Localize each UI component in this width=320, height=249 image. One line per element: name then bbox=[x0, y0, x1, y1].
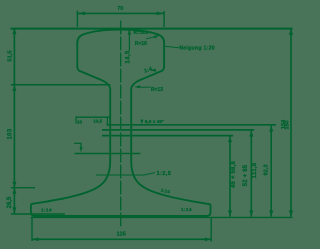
fishing height extension line 1 bbox=[107, 124, 277, 126]
right dim 2 top arrow bbox=[249, 131, 253, 137]
svg-text:6,5 x 45°: 6,5 x 45° bbox=[145, 119, 164, 125]
foot width arrow right bbox=[205, 237, 211, 241]
fishing height extension line 3 bbox=[102, 135, 233, 137]
svg-text:13,5: 13,5 bbox=[93, 119, 102, 124]
head width dimension: left extension bbox=[76, 11, 78, 27]
web reference line bbox=[75, 153, 141, 155]
total height top arrow bbox=[289, 29, 293, 35]
left ext arrow at head underside bbox=[10, 83, 15, 86]
left dim arrow top bbox=[12, 28, 16, 34]
web fillet leader bbox=[137, 86, 151, 88]
svg-text:52 + 65: 52 + 65 bbox=[243, 164, 249, 186]
total height dimension line bbox=[290, 29, 292, 217]
svg-text:1:14: 1:14 bbox=[181, 207, 192, 213]
svg-text:1:2,5: 1:2,5 bbox=[157, 171, 172, 177]
svg-text:R=300: R=300 bbox=[134, 30, 149, 35]
svg-text:26,5: 26,5 bbox=[7, 196, 13, 208]
web fillet leader arrow bbox=[134, 85, 140, 88]
right dim line 1 (innermost) bbox=[229, 136, 231, 216]
svg-text:125: 125 bbox=[117, 231, 126, 237]
svg-text:16: 16 bbox=[77, 120, 83, 125]
fishing height extension line 2 bbox=[102, 129, 254, 131]
foot width extension left bbox=[31, 218, 33, 241]
head mini dimension line bbox=[128, 29, 130, 51]
svg-text:92,3: 92,3 bbox=[263, 165, 269, 176]
head side leader bbox=[165, 46, 179, 48]
svg-text:R=10: R=10 bbox=[135, 41, 147, 47]
svg-text:Neigung 1:20: Neigung 1:20 bbox=[179, 45, 215, 51]
svg-text:103: 103 bbox=[7, 128, 13, 139]
lower web leader bbox=[142, 173, 155, 176]
svg-text:14,5: 14,5 bbox=[125, 50, 132, 64]
extension 1 nub arrow bbox=[140, 120, 143, 125]
fishing slope arrow bbox=[150, 69, 157, 72]
total height bottom arrow bbox=[289, 210, 293, 216]
right dim 1 top arrow bbox=[228, 137, 232, 143]
gauge corner leader arrow bbox=[154, 35, 160, 39]
lower web reference line bbox=[96, 174, 142, 176]
head width arrow right bbox=[157, 12, 164, 16]
right dim line 2 bbox=[250, 131, 252, 217]
svg-text:51,5: 51,5 bbox=[7, 50, 13, 62]
right dim 1 bottom arrow bbox=[228, 211, 232, 217]
left extension at head underside bbox=[11, 84, 110, 86]
web small dim tick left bbox=[75, 116, 77, 123]
top-of-rail extension line bbox=[11, 28, 293, 30]
left extension at foot tip bbox=[11, 213, 65, 215]
left extension at foot top bbox=[11, 187, 35, 189]
head width arrow left bbox=[78, 12, 85, 16]
left dim arrow bottom bbox=[12, 207, 16, 213]
svg-text:150: 150 bbox=[285, 120, 291, 129]
web small dimension line bbox=[76, 116, 111, 118]
head width dimension: right extension bbox=[163, 11, 165, 27]
foot width dimension line bbox=[32, 238, 211, 240]
svg-text:45 + 58,8: 45 + 58,8 bbox=[231, 161, 237, 188]
gauge corner leader bbox=[146, 37, 156, 39]
web reference leader bbox=[74, 143, 81, 149]
foot bottom extension line bbox=[31, 216, 293, 218]
left chained dimension line bbox=[13, 28, 15, 213]
left dim junction arrows mid2 bbox=[12, 182, 16, 194]
right dim 3 top arrow bbox=[269, 126, 273, 132]
svg-text:70: 70 bbox=[117, 6, 123, 12]
svg-text:111,8: 111,8 bbox=[252, 162, 258, 178]
centerline (vertical axis) bbox=[120, 21, 122, 227]
head width dimension line bbox=[77, 12, 164, 14]
right dim 2 bottom arrow bbox=[249, 211, 253, 217]
web reference leader arrow bbox=[80, 147, 83, 152]
web small dim tick right bbox=[106, 117, 108, 124]
svg-text:R=13: R=13 bbox=[151, 87, 163, 93]
rail profile outline bbox=[31, 30, 211, 216]
right dim line 3 bbox=[270, 126, 272, 217]
right dim 3 bottom arrow bbox=[269, 211, 273, 217]
head mini dim arrow bbox=[128, 29, 132, 34]
left dim junction arrow mid1 (up, below junction) bbox=[12, 85, 16, 91]
foot width arrow left bbox=[33, 237, 39, 241]
svg-text:1:14: 1:14 bbox=[41, 208, 52, 214]
foot width extension right bbox=[210, 218, 212, 242]
